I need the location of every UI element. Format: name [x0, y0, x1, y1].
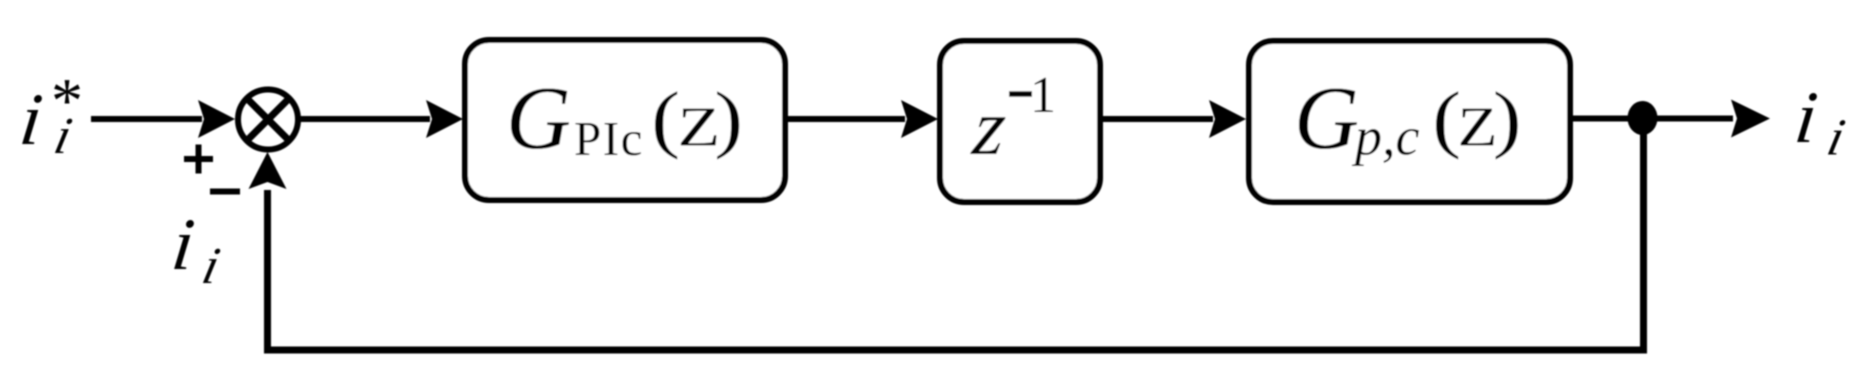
- svg-text:(: (: [651, 78, 680, 161]
- block G_PIc(z): [465, 40, 785, 200]
- minus sign: [210, 189, 240, 195]
- wire summing to G_PIc: [298, 100, 463, 138]
- svg-text:PIc: PIc: [574, 111, 644, 166]
- block G_p,c(z): [1249, 41, 1570, 202]
- svg-text:G: G: [506, 69, 571, 168]
- svg-text:Z: Z: [1458, 97, 1498, 159]
- svg-text:): ): [1493, 78, 1522, 161]
- node junction dot: [1628, 101, 1658, 135]
- svg-text:1: 1: [1030, 67, 1056, 124]
- svg-text:p,c: p,c: [1351, 107, 1420, 167]
- block z^-1: [940, 41, 1100, 202]
- plus sign: [184, 145, 213, 174]
- summing junction: [238, 90, 298, 150]
- wire input arrow: [91, 100, 235, 138]
- svg-text:G: G: [1294, 69, 1359, 168]
- feedback label i_i: [168, 204, 225, 295]
- input label i_i*: [16, 65, 83, 165]
- wire feedback path: [249, 118, 1644, 350]
- output label i_i: [1791, 77, 1850, 166]
- wire G_p,c to output: [1570, 100, 1770, 138]
- svg-text:): ): [714, 78, 743, 161]
- wire G_PIc to z^-1: [788, 100, 938, 138]
- wire z^-1 to G_p,c: [1103, 100, 1246, 138]
